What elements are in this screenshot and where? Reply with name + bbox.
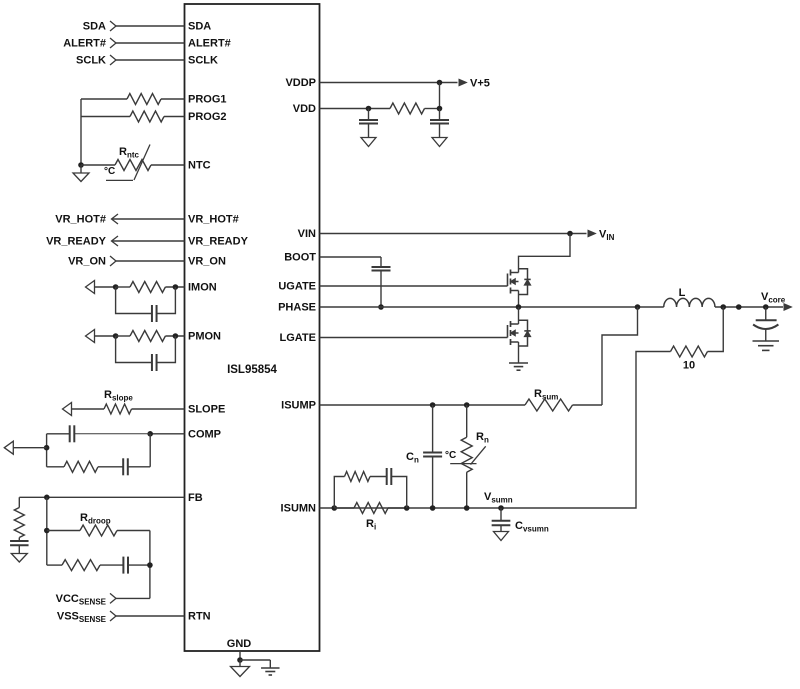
ground Cvsumn (open arrow) xyxy=(494,532,509,541)
wire VDDP xyxy=(320,82,458,84)
wire droop right vertical xyxy=(149,531,151,599)
label Cvsumn xyxy=(515,520,549,534)
svg-text:10: 10 xyxy=(683,360,695,372)
wire NTC right xyxy=(151,164,185,166)
node BOOT phase junction xyxy=(378,304,384,310)
wire Q2 source to ground xyxy=(518,342,520,363)
ground GND earth xyxy=(261,668,280,675)
label Cn xyxy=(406,451,419,465)
node PHASE Q1 junction xyxy=(516,304,522,310)
wire VDD right xyxy=(425,108,440,110)
node GND junction xyxy=(237,657,243,663)
node COMP arrow junction xyxy=(44,445,50,451)
node ISUMP Cn junction xyxy=(430,402,436,408)
node IMON right junction xyxy=(173,284,179,290)
output arrow VR_READY xyxy=(112,236,119,246)
svg-text:PMON: PMON xyxy=(188,331,221,343)
pin label VR_ON xyxy=(188,256,226,268)
node PHASE inductor junction xyxy=(635,304,641,310)
svg-text:°C: °C xyxy=(104,166,115,177)
capacitor COMP C2 xyxy=(98,458,150,475)
wire VOUT to R10 xyxy=(708,307,724,352)
net label VR_HOT# xyxy=(55,214,106,226)
input connector VCC_SENSE xyxy=(110,593,116,603)
pin label GND xyxy=(227,638,252,650)
pin label PHASE xyxy=(278,302,316,314)
wire PROG2 right xyxy=(164,116,185,118)
svg-text:LGATE: LGATE xyxy=(280,332,316,344)
node ISUMN Rn junction xyxy=(464,505,470,511)
svg-text:PHASE: PHASE xyxy=(278,302,316,314)
svg-text:SCLK: SCLK xyxy=(76,55,106,67)
resistor R_PROG1 xyxy=(127,94,161,105)
net label V+5 xyxy=(470,78,490,90)
capacitor PMON filter xyxy=(116,336,176,371)
node NTC ground junction xyxy=(78,162,84,168)
pin label VDD xyxy=(293,103,316,115)
wire IMON right xyxy=(165,286,184,288)
resistor COMP R2 xyxy=(47,461,98,472)
wire FB xyxy=(19,496,184,498)
wire NTC left xyxy=(81,164,115,166)
svg-text:SDA: SDA xyxy=(188,21,211,33)
resistor FB divider xyxy=(14,497,24,537)
label Rntc xyxy=(119,146,140,160)
pin label PROG2 xyxy=(188,111,227,123)
svg-text:VR_READY: VR_READY xyxy=(188,236,249,248)
input connector SDA xyxy=(110,21,116,31)
svg-text:°C: °C xyxy=(445,450,456,461)
ground VDD C1 (open arrow) xyxy=(361,138,376,147)
svg-text:ALERT#: ALERT# xyxy=(188,38,231,50)
capacitor VDD C2 xyxy=(430,109,449,138)
svg-text:VR_HOT#: VR_HOT# xyxy=(188,214,239,226)
power arrow V+5 xyxy=(459,79,467,85)
power arrow VIN xyxy=(588,230,596,236)
resistor R_PROG2 xyxy=(130,111,164,122)
wire COMP left vertical xyxy=(46,434,48,467)
ground VDD C2 (open arrow) xyxy=(432,138,447,147)
ground NTC (open arrow) xyxy=(73,165,89,182)
IC U1 name label ISL95854 xyxy=(227,364,277,376)
node VOUT junction 3 xyxy=(763,304,769,310)
svg-text:PROG1: PROG1 xyxy=(188,94,227,106)
wire Ri right xyxy=(388,507,407,509)
resistor IMON filter xyxy=(130,282,165,293)
wire PHASE to Rsum xyxy=(602,307,638,405)
pin label SDA xyxy=(188,21,211,33)
wire VSS_SENSE to RTN xyxy=(116,615,185,617)
wire COMP branch up xyxy=(149,434,151,467)
thermistor Rntc xyxy=(106,145,151,181)
wire BOOT xyxy=(320,256,382,258)
node Rdroop junction xyxy=(44,528,50,534)
label Rdroop xyxy=(80,512,111,526)
node droop cap junction xyxy=(147,562,153,568)
svg-text:ISUMN: ISUMN xyxy=(281,503,317,515)
svg-text:GND: GND xyxy=(227,638,252,650)
pin label NTC xyxy=(188,160,211,172)
resistor Ri xyxy=(334,503,388,514)
capacitor VDD C1 xyxy=(359,109,378,138)
wire SCLK xyxy=(116,59,185,61)
svg-text:UGATE: UGATE xyxy=(278,281,316,293)
node PMON right junction xyxy=(173,333,179,339)
wire VR_READY xyxy=(112,240,185,242)
pin label FB xyxy=(188,492,203,504)
net label Vcore xyxy=(761,291,786,305)
wire Q1 source to PHASE xyxy=(518,291,520,308)
net label VIN xyxy=(599,229,615,243)
wire VDD xyxy=(320,108,391,110)
pin label UGATE xyxy=(278,281,316,293)
svg-text:PROG2: PROG2 xyxy=(188,111,227,123)
wire SLOPE left xyxy=(72,408,105,410)
wire VDDP to VDD xyxy=(439,83,441,109)
wire GND pin xyxy=(239,651,241,660)
power arrow Vcore xyxy=(784,304,792,310)
input connector SCLK xyxy=(110,55,116,65)
capacitor Cout (polarized) xyxy=(753,307,778,341)
label Rsum xyxy=(534,388,558,402)
svg-text:SCLK: SCLK xyxy=(188,55,218,67)
ground FB (open arrow) xyxy=(11,554,27,563)
label Cn degC xyxy=(445,450,456,461)
wire FB down to droop xyxy=(46,497,48,565)
arrow COMP output xyxy=(4,441,13,454)
svg-text:VIN: VIN xyxy=(298,228,316,240)
wire PROG2 left xyxy=(81,116,130,118)
net label VCC_SENSE xyxy=(56,593,107,607)
capacitor IMON filter xyxy=(116,287,176,322)
input connector ALERT# xyxy=(110,38,116,48)
pin label VR_READY xyxy=(188,236,249,248)
pin label COMP xyxy=(188,428,221,440)
node VDD right junction xyxy=(437,106,443,112)
wire PROG1 left xyxy=(81,98,127,100)
wire VIN xyxy=(320,233,587,235)
wire PMON right xyxy=(165,335,184,337)
label Rslope xyxy=(104,389,133,403)
pin label VIN xyxy=(298,228,316,240)
wire UGATE xyxy=(320,285,508,287)
node VOUT junction 2 xyxy=(736,304,742,310)
pin label ISUMP xyxy=(281,400,316,412)
svg-text:V+5: V+5 xyxy=(470,78,490,90)
net label VSS_SENSE xyxy=(57,611,107,625)
wire SDA xyxy=(116,25,185,27)
net label SCLK xyxy=(76,55,106,67)
wire ISUMN xyxy=(320,507,502,509)
wire VOUT xyxy=(715,306,783,308)
output arrow VR_HOT# xyxy=(112,214,119,224)
capacitor Cn xyxy=(423,405,442,508)
node FB junction xyxy=(44,495,50,501)
transistor Q2 low-side MOSFET xyxy=(508,320,531,346)
svg-text:VR_HOT#: VR_HOT# xyxy=(55,214,106,226)
wire IMON left xyxy=(95,286,116,288)
ground Cout earth xyxy=(753,341,780,350)
wire VR_ON xyxy=(116,260,185,262)
pin label PROG1 xyxy=(188,94,227,106)
capacitor Ri parallel branch xyxy=(370,468,407,508)
wire VCC_SENSE xyxy=(116,597,150,599)
node ISUMN Cn junction xyxy=(430,505,436,511)
node ISUMN left junction xyxy=(332,505,338,511)
capacitor Cvsumn xyxy=(492,508,511,532)
wire GND to earth xyxy=(240,660,270,668)
svg-text:FB: FB xyxy=(188,492,203,504)
resistor Rsum xyxy=(525,399,573,411)
node VIN junction xyxy=(567,231,573,237)
label Rn xyxy=(476,431,489,445)
svg-text:VR_ON: VR_ON xyxy=(188,256,226,268)
ground GND (open arrow) xyxy=(231,660,250,677)
thermistor Rn xyxy=(450,405,486,508)
wire IMON to resistor xyxy=(116,286,130,288)
resistor Ri parallel branch xyxy=(334,472,370,509)
wire LGATE xyxy=(320,337,508,339)
svg-text:VDD: VDD xyxy=(293,103,316,115)
node VDD cap junction xyxy=(366,106,372,112)
pin label ISUMN xyxy=(281,503,317,515)
resistor Rdroop xyxy=(47,525,150,536)
svg-text:L: L xyxy=(679,287,686,299)
capacitor FB lower xyxy=(100,557,150,574)
resistor VDD filter xyxy=(390,103,425,114)
wire R10 to Vsumn xyxy=(501,352,671,509)
node ISUMP Rn junction xyxy=(464,402,470,408)
svg-text:COMP: COMP xyxy=(188,428,221,440)
net label VR_READY xyxy=(46,236,107,248)
wire PMON left xyxy=(95,335,116,337)
svg-text:NTC: NTC xyxy=(188,160,211,172)
wire PHASE xyxy=(320,306,664,308)
node VDDP junction xyxy=(437,80,443,86)
svg-text:SDA: SDA xyxy=(83,21,106,33)
svg-text:ISL95854: ISL95854 xyxy=(227,364,277,376)
arrow SLOPE xyxy=(63,403,72,416)
arrow PMON output xyxy=(86,330,95,343)
input connector VR_ON xyxy=(110,256,116,266)
pin label SCLK xyxy=(188,55,218,67)
wire PROG bus vertical xyxy=(80,99,82,165)
wire PHASE to Q2 drain xyxy=(518,307,520,324)
pin label SLOPE xyxy=(188,404,225,416)
wire PMON to resistor xyxy=(116,335,130,337)
wire VR_HOT# xyxy=(112,218,185,220)
label NTC degC xyxy=(104,166,115,177)
pin label VDDP xyxy=(285,77,316,89)
IC U1 ISL95854 body xyxy=(185,4,320,651)
inductor L xyxy=(664,298,715,307)
pin label ALERT# xyxy=(188,38,231,50)
wire PROG1 right xyxy=(161,98,185,100)
ground Q2 earth xyxy=(509,363,528,370)
net label SDA xyxy=(83,21,106,33)
svg-text:ALERT#: ALERT# xyxy=(63,38,106,50)
node Vsumn junction xyxy=(498,505,504,511)
capacitor BOOT xyxy=(372,257,391,307)
transistor Q1 high-side MOSFET xyxy=(508,269,531,295)
node PMON left junction xyxy=(113,333,119,339)
resistor FB lower xyxy=(47,560,100,571)
wire Rsum right xyxy=(573,404,603,406)
svg-text:RTN: RTN xyxy=(188,611,211,623)
node VOUT junction 1 xyxy=(720,304,726,310)
resistor R10 xyxy=(671,346,708,357)
pin label PMON xyxy=(188,331,221,343)
wire VIN to Q1 drain xyxy=(519,234,571,273)
svg-text:BOOT: BOOT xyxy=(284,252,316,264)
wire ALERT# xyxy=(116,42,185,44)
net label VR_ON xyxy=(68,256,106,268)
wire ISUMP xyxy=(320,404,526,406)
node IMON left junction xyxy=(113,284,119,290)
wire SLOPE right xyxy=(132,408,185,410)
input connector VSS_SENSE xyxy=(110,611,116,621)
net label ALERT# xyxy=(63,38,106,50)
label L xyxy=(679,287,686,299)
wire COMP pin xyxy=(150,433,184,435)
svg-text:VR_READY: VR_READY xyxy=(46,236,107,248)
node COMP junction xyxy=(147,431,153,437)
svg-text:ISUMP: ISUMP xyxy=(281,400,316,412)
pin label VR_HOT# xyxy=(188,214,239,226)
node ISUMN Ri junction xyxy=(404,505,410,511)
capacitor COMP C1 branch xyxy=(47,425,151,442)
pin label RTN xyxy=(188,611,211,623)
label Ri xyxy=(366,518,376,532)
svg-text:SLOPE: SLOPE xyxy=(188,404,225,416)
pin label IMON xyxy=(188,282,217,294)
net label Vsumn xyxy=(484,491,513,505)
svg-text:VDDP: VDDP xyxy=(285,77,316,89)
label R10 xyxy=(683,360,695,372)
pin label BOOT xyxy=(284,252,316,264)
pin label LGATE xyxy=(280,332,316,344)
svg-text:VR_ON: VR_ON xyxy=(68,256,106,268)
resistor PMON filter xyxy=(130,331,165,342)
capacitor FB divider xyxy=(10,538,29,554)
wire COMP arrow xyxy=(13,447,46,449)
arrow IMON output xyxy=(86,281,95,294)
resistor Rslope xyxy=(104,404,132,414)
svg-text:IMON: IMON xyxy=(188,282,217,294)
